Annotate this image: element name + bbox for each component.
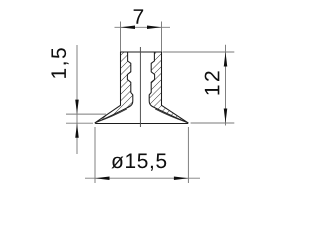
dim 7: dimension line [115,26,171,28]
dim 1,5: extension lines [66,113,106,115]
dim 12: dimension line [225,45,227,126]
dim 12: arrows [224,52,228,67]
dim 12: extension lines [163,51,235,53]
suction cup section left half [95,52,133,123]
dim 1,5: arrows [75,100,79,115]
dim 1,5: dimension line [76,45,78,154]
dim ø15,5: extension lines [94,127,96,183]
left lip inner detail line [98,109,127,122]
dim ø15,5: dimension line [85,177,200,179]
dim ø15,5: arrows [95,176,110,180]
dim 1,5: text [51,48,68,78]
dim 12: text [205,71,220,94]
top edge full line [121,51,162,53]
suction cup section right half [149,52,188,123]
dim 7: arrows [121,26,136,30]
right lip inner detail line [155,109,185,122]
dim ø15,5: text [111,154,166,171]
centerline [139,47,141,127]
dim 7: extension lines [120,22,122,52]
bottom resting plane [95,123,188,125]
dim 7: text [134,9,144,23]
